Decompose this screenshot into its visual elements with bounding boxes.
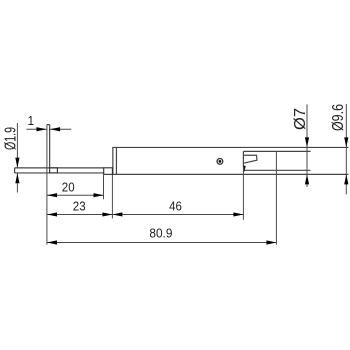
svg-text:20: 20 <box>62 180 75 195</box>
svg-text:Ø9.6: Ø9.6 <box>330 104 348 131</box>
svg-text:80.9: 80.9 <box>149 226 172 240</box>
svg-text:Ø7: Ø7 <box>291 108 309 130</box>
svg-text:46: 46 <box>169 199 182 214</box>
svg-text:23: 23 <box>73 199 86 214</box>
svg-text:1: 1 <box>27 114 34 128</box>
svg-text:Ø1.9: Ø1.9 <box>1 127 19 150</box>
